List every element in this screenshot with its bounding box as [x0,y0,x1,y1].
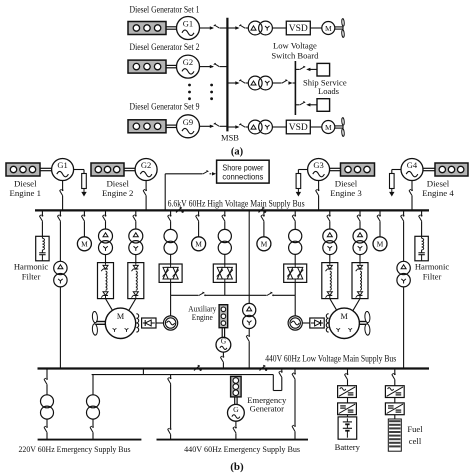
svg-text:Loads: Loads [318,86,340,96]
svg-text:Shore power: Shore power [222,164,263,173]
svg-text:Engine 3: Engine 3 [330,188,362,198]
svg-text:M: M [377,240,384,249]
svg-text:M: M [117,312,125,321]
svg-text:Harmonic: Harmonic [415,262,450,272]
svg-text:Harmonic: Harmonic [14,262,49,272]
svg-text:M: M [195,240,202,249]
svg-text:G: G [221,337,227,346]
svg-text:G: G [233,405,239,414]
svg-text:Engine 1: Engine 1 [10,188,42,198]
svg-text:Filter: Filter [423,272,442,282]
svg-text:cell: cell [409,436,422,446]
svg-text:(a): (a) [231,147,244,158]
svg-text:G4: G4 [407,160,418,170]
svg-text:M: M [325,24,332,33]
svg-text:220V 60Hz Emergency Supply Bus: 220V 60Hz Emergency Supply Bus [19,445,131,454]
svg-text:Diesel Generator Set 9: Diesel Generator Set 9 [130,101,200,111]
svg-text:Switch Board: Switch Board [271,51,319,61]
svg-text:G3: G3 [313,160,323,170]
svg-text:Low Voltage: Low Voltage [273,40,317,50]
svg-text:G1: G1 [183,19,193,29]
svg-text:MSB: MSB [221,133,239,143]
svg-text:(b): (b) [230,461,244,473]
svg-text:440V 60Hz Emergency Supply Bus: 440V 60Hz Emergency Supply Bus [184,445,300,454]
svg-text:G2: G2 [183,57,193,67]
svg-text:Fuel: Fuel [407,424,423,434]
svg-text:G2: G2 [141,160,151,170]
svg-text:Battery: Battery [335,442,361,452]
svg-text:M: M [261,240,268,249]
svg-text:connections: connections [222,173,263,182]
svg-text:Engine: Engine [192,312,213,322]
svg-text:VSD: VSD [289,24,308,34]
svg-text:G9: G9 [183,117,193,127]
svg-text:Diesel Generator Set 1: Diesel Generator Set 1 [130,5,200,15]
svg-text:M: M [341,312,349,321]
svg-text:Diesel Generator Set 2: Diesel Generator Set 2 [130,42,200,52]
svg-text:M: M [325,123,332,132]
svg-text:Engine 2: Engine 2 [102,188,134,198]
svg-text:Generator: Generator [250,403,284,413]
svg-text:G1: G1 [57,160,67,170]
svg-text:M: M [81,240,88,249]
svg-text:Engine 4: Engine 4 [422,188,454,198]
svg-text:VSD: VSD [289,123,308,133]
svg-text:6.6kV 60Hz High Voltage Main S: 6.6kV 60Hz High Voltage Main Supply Bus [168,199,305,209]
svg-text:Filter: Filter [22,272,41,282]
svg-text:440V 60Hz Low Voltage Main Sup: 440V 60Hz Low Voltage Main Supply Bus [265,354,396,364]
